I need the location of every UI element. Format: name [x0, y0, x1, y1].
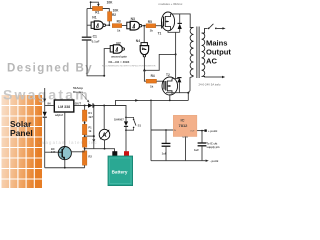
svg-text:OUT: OUT: [75, 101, 82, 105]
mosfet T2: [162, 73, 178, 95]
primary winding: [190, 28, 193, 76]
gnd pin: [185, 137, 187, 161]
secondary winding: [202, 33, 205, 76]
svg-text:1k: 1k: [150, 29, 154, 33]
svg-text:4k7: 4k7: [88, 115, 93, 119]
wire line A battery plus: [116, 100, 189, 105]
gate N4 vertical: [136, 26, 149, 71]
solar panel plus line: [45, 88, 55, 168]
svg-text:LM 338: LM 338: [58, 105, 70, 109]
transformer: [190, 27, 223, 79]
svg-text:modules + IR2xxx: modules + IR2xxx: [159, 2, 183, 6]
svg-text:- point: - point: [210, 159, 219, 163]
svg-text:R2: R2: [112, 13, 116, 17]
svg-text:supply pin: supply pin: [207, 145, 220, 149]
resistor R2: [108, 9, 120, 26]
svg-text:R1: R1: [95, 10, 99, 14]
cap input vertical: [165, 130, 167, 143]
svg-text:R3: R3: [117, 20, 121, 24]
resistor R4: [144, 70, 161, 88]
transistor BC547: [45, 147, 85, 168]
resistor divider stack: [82, 106, 93, 168]
svg-text:R5: R5: [148, 20, 152, 24]
secondary top lead: [202, 28, 208, 33]
mosfet T1: [161, 12, 174, 31]
svg-text:10K: 10K: [113, 9, 120, 13]
sense line down from out diode: [85, 106, 115, 153]
switch S1: [126, 117, 134, 118]
svg-text:Diodes: Diodes: [73, 90, 83, 94]
wire center tap: [144, 54, 175, 70]
secondary bottom lead: [202, 75, 223, 78]
diode D1: [178, 14, 182, 32]
gate N3: [127, 17, 146, 30]
svg-text:IN: IN: [48, 102, 51, 106]
core: [196, 27, 198, 79]
svg-text:T1: T1: [158, 32, 162, 36]
LM338: [48, 100, 82, 147]
svg-text:1N4007: 1N4007: [114, 118, 124, 122]
potentiometer R1: [87, 1, 113, 15]
svg-text:OUT: OUT: [190, 130, 195, 132]
svg-text:Panel: Panel: [10, 128, 33, 138]
svg-text:Designed By: Designed By: [7, 63, 93, 75]
svg-text:0.1uF: 0.1uF: [92, 40, 100, 44]
svg-text:1uF: 1uF: [162, 152, 167, 156]
svg-text:R2: R2: [88, 155, 92, 159]
ground rail right: [151, 160, 206, 162]
svg-text:Mains: Mains: [206, 39, 228, 48]
IC 7812: [173, 115, 197, 139]
svg-text:RECOMMENDED MOSFETS IRF540 FOR: RECOMMENDED MOSFETS IRF540 FOR INVERTER: [102, 66, 156, 68]
plus point: [204, 129, 206, 131]
ground rail left: [45, 167, 85, 169]
wire: left bus N1 input / C1: [87, 9, 104, 76]
svg-text:1k: 1k: [117, 29, 121, 33]
7812 section: [151, 100, 206, 160]
resistor R3: [112, 20, 127, 33]
minus point: [206, 160, 209, 162]
svg-text:1k: 1k: [88, 129, 91, 133]
diode 50A out: [88, 103, 93, 107]
ammeter: [99, 129, 110, 149]
wire T1 drain to transformer top: [171, 14, 194, 28]
svg-text:N4: N4: [136, 39, 140, 43]
wire battery plus to 7812: [150, 100, 152, 160]
wire T1 source: [168, 31, 180, 33]
wire T1 source down to T2: [175, 32, 177, 78]
diode panel: [43, 112, 47, 117]
1N4007 diode and switch to battery: [114, 117, 141, 153]
svg-text:10K: 10K: [107, 1, 114, 5]
svg-text:GND: GND: [182, 135, 188, 139]
gate N2 unused: [104, 41, 127, 75]
svg-text:7812: 7812: [179, 123, 189, 128]
switch mains: [208, 24, 226, 30]
arrow secondary bottom: [222, 76, 225, 78]
svg-text:24-0-24V 5A trafo: 24-0-24V 5A trafo: [199, 83, 221, 87]
gate N1: [91, 16, 110, 30]
svg-text:C1: C1: [93, 35, 97, 39]
capacitor C3: [194, 143, 206, 152]
svg-text:N1: N1: [92, 16, 96, 20]
battery: [108, 151, 133, 185]
svg-text:P1: P1: [88, 126, 92, 130]
svg-text:+ point: + point: [208, 129, 217, 133]
wire LM338 out rail: [74, 106, 126, 118]
svg-text:T2: T2: [166, 73, 170, 77]
svg-text:1uF: 1uF: [194, 148, 199, 152]
capacitor C2: [162, 143, 171, 155]
svg-text:N1---N4 = 4093: N1---N4 = 4093: [109, 60, 130, 64]
svg-text:unused gate: unused gate: [111, 54, 127, 58]
svg-text:IC: IC: [181, 118, 185, 123]
svg-text:S1: S1: [138, 124, 142, 128]
svg-text:N3: N3: [131, 17, 135, 21]
diode D2: [172, 78, 182, 93]
svg-text:R4: R4: [151, 74, 155, 78]
capacitor C1: [82, 35, 100, 44]
svg-text:To IC ckt: To IC ckt: [207, 141, 218, 145]
cap out vertical: [201, 131, 203, 143]
bus down to ammeter: [103, 106, 105, 130]
svg-text:swagatam latest tec: swagatam latest tec: [38, 140, 98, 145]
out wire: [196, 130, 204, 132]
svg-text:AC: AC: [206, 57, 217, 66]
wire T2 drain node: [166, 76, 194, 100]
svg-text:1k: 1k: [150, 85, 154, 89]
svg-text:Battery: Battery: [112, 169, 128, 174]
svg-text:adj/ref: adj/ref: [55, 113, 63, 117]
resistor R5: [146, 20, 162, 33]
svg-text:Output: Output: [206, 48, 231, 57]
svg-text:R1: R1: [88, 111, 92, 115]
